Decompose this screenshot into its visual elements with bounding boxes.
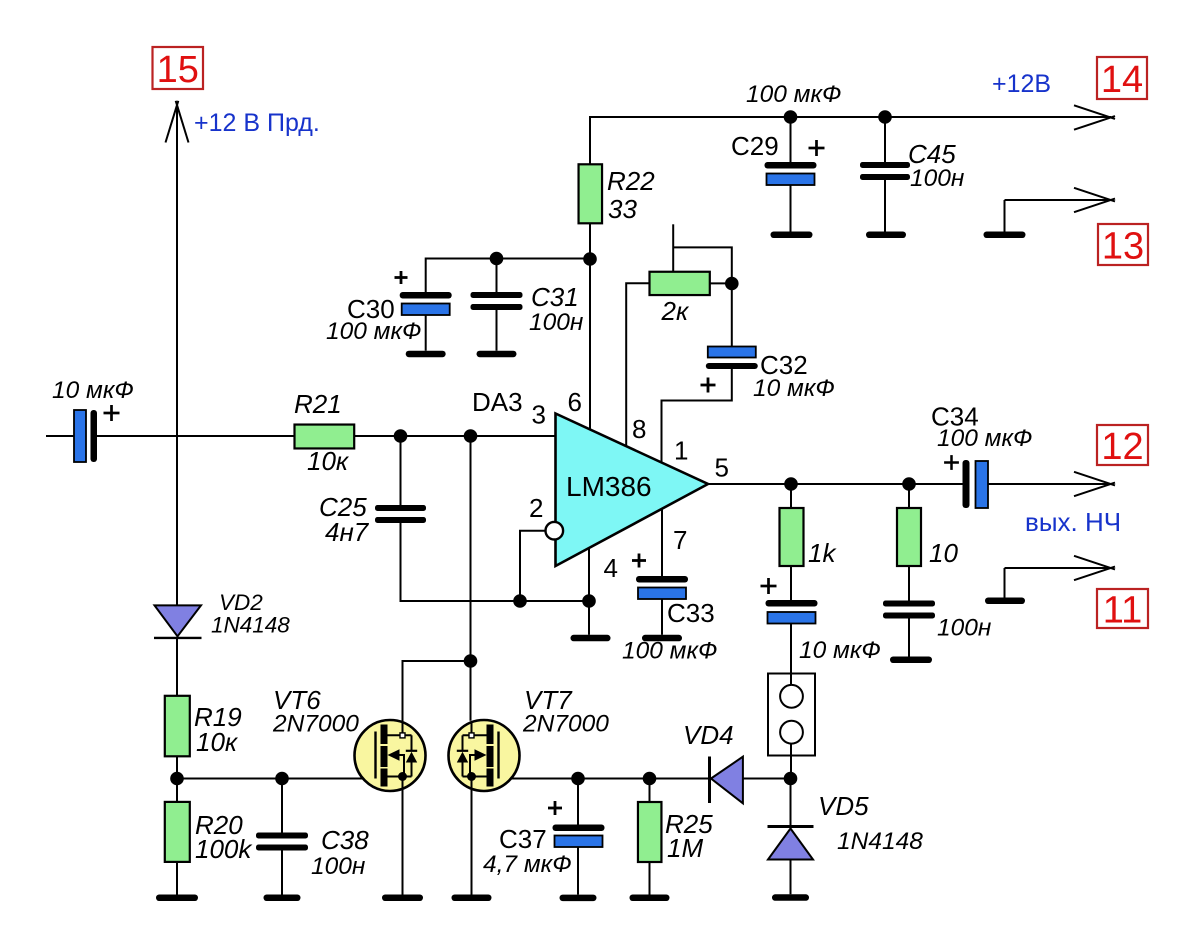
wire C45 top bbox=[884, 117, 886, 162]
resistor 1k bbox=[780, 508, 804, 566]
svg-text:14: 14 bbox=[1101, 59, 1143, 101]
svg-text:вых. НЧ: вых. НЧ bbox=[1025, 507, 1121, 537]
svg-text:3: 3 bbox=[532, 400, 546, 430]
capacitor C31 100н bbox=[471, 292, 523, 298]
diode VD2 1N4148 bbox=[155, 605, 202, 636]
wire C30-C31 rail bbox=[426, 259, 590, 293]
connector 11 red box bbox=[1097, 589, 1148, 628]
wire to arrow 13 bbox=[1005, 199, 1112, 201]
svg-text:4н7: 4н7 bbox=[325, 517, 370, 547]
wire 1k to cap bbox=[790, 566, 792, 600]
VT6 body diode branch bbox=[411, 735, 413, 751]
connector 13 red box bbox=[1098, 224, 1148, 265]
ground arrow 11 bbox=[985, 598, 1025, 605]
svg-text:2: 2 bbox=[529, 493, 543, 523]
wire pin4 to ground bbox=[588, 548, 590, 635]
wire input to R21 bbox=[97, 435, 295, 437]
svg-text:100 мкФ: 100 мкФ bbox=[746, 81, 842, 108]
svg-text:DA3: DA3 bbox=[472, 387, 523, 417]
node pin2 rail bbox=[513, 594, 527, 608]
ground C38 bbox=[264, 895, 301, 902]
connector 14 red box bbox=[1097, 57, 1147, 99]
wire arrow 13 to ground bbox=[1004, 200, 1006, 232]
capacitor C32 10 мкФ bbox=[708, 347, 756, 358]
wire input B down to VT7 drain bbox=[470, 436, 472, 721]
wire C33 bottom bbox=[661, 599, 663, 635]
VT7 source wire to ground bbox=[471, 777, 473, 895]
resistor R22 33 bbox=[579, 164, 603, 223]
VT6 drain lead bbox=[388, 734, 412, 736]
node R22/C30 rail bbox=[583, 252, 597, 266]
node output 10 bbox=[902, 477, 916, 491]
svg-text:4,7 мкФ: 4,7 мкФ bbox=[483, 851, 572, 878]
wire R21 to pin3 bbox=[354, 435, 555, 437]
node input B bbox=[464, 429, 478, 443]
ground C30 bbox=[406, 351, 446, 358]
ground arrow 13 bbox=[984, 232, 1026, 239]
capacitor 10 мкФ (below 1k) bbox=[766, 600, 818, 607]
wire 10 to cap bbox=[908, 566, 910, 602]
wire C29 bottom bbox=[790, 185, 792, 232]
wire VD2 to R19 bbox=[176, 639, 178, 696]
ground pin4 bbox=[571, 635, 611, 642]
svg-text:15: 15 bbox=[157, 49, 199, 91]
svg-text:11: 11 bbox=[1103, 590, 1142, 632]
node C38 tap bbox=[275, 772, 289, 786]
ground C33 bbox=[642, 635, 682, 642]
VT6 substrate arrow bbox=[388, 749, 400, 760]
svg-text:100 мкФ: 100 мкФ bbox=[326, 318, 422, 345]
wire to arrow 11 bbox=[1005, 567, 1112, 569]
wire connector to node bbox=[790, 744, 792, 779]
connector pin circle top bbox=[780, 685, 803, 708]
wire 2к right lead bbox=[710, 282, 732, 284]
wire C29 top bbox=[790, 117, 792, 162]
wire wiper jog bbox=[673, 247, 732, 283]
wire VD4 to node bbox=[743, 778, 791, 780]
arrow to 14 bbox=[1074, 105, 1115, 119]
svg-text:C33: C33 bbox=[667, 598, 715, 628]
capacitor C37 4,7 мкФ bbox=[553, 825, 605, 832]
svg-text:2N7000: 2N7000 bbox=[522, 711, 609, 738]
wire C31 bottom bbox=[496, 310, 498, 351]
node pin4 rail bbox=[582, 594, 596, 608]
VT7 drain lead bbox=[463, 734, 487, 736]
svg-text:33: 33 bbox=[608, 194, 637, 224]
node C31 rail bbox=[490, 252, 504, 266]
svg-text:100н: 100н bbox=[311, 853, 365, 880]
svg-text:2к: 2к bbox=[661, 296, 690, 326]
svg-text:100 мкФ: 100 мкФ bbox=[937, 425, 1033, 452]
resistor 10 bbox=[897, 508, 921, 566]
connector pin circle bottom bbox=[780, 721, 803, 744]
svg-text:10 мкФ: 10 мкФ bbox=[52, 377, 134, 404]
VT7 source lead bbox=[463, 776, 487, 778]
wire C25 upper bbox=[400, 436, 402, 505]
svg-text:R22: R22 bbox=[607, 166, 655, 196]
svg-text:100н: 100н bbox=[529, 309, 583, 336]
ground VD5 bbox=[772, 894, 809, 901]
ground C37 bbox=[560, 895, 597, 902]
svg-text:C29: C29 bbox=[731, 131, 779, 161]
arrow to 12 bbox=[1074, 472, 1115, 486]
VT6 channel segments bbox=[381, 725, 388, 745]
wire VD5 top bbox=[790, 779, 792, 827]
svg-text:10 мкФ: 10 мкФ bbox=[799, 637, 881, 664]
wire +12V supply vertical bbox=[176, 106, 178, 605]
node C29 top bbox=[784, 110, 798, 124]
node R19/R20 bbox=[170, 772, 184, 786]
capacitor input 10 мкФ (electrolytic, series) bbox=[74, 410, 86, 462]
svg-text:4: 4 bbox=[604, 553, 618, 583]
wire R22 top to +12V rail bbox=[590, 117, 1111, 164]
wire C34 to arrow 12 bbox=[988, 483, 1111, 485]
svg-text:13: 13 bbox=[1102, 226, 1144, 268]
wire C25 lower to rail bbox=[401, 523, 590, 601]
ground C31 bbox=[477, 351, 517, 358]
VT7 drain square bbox=[469, 733, 474, 738]
capacitor C34 100 мкФ (series) bbox=[963, 460, 970, 508]
capacitor C29 100 мкФ bbox=[765, 162, 817, 169]
svg-text:VD5: VD5 bbox=[818, 791, 869, 821]
VT7 drain wire bbox=[471, 721, 473, 735]
VT6 source lead bbox=[388, 776, 412, 778]
svg-text:1N4148: 1N4148 bbox=[211, 613, 290, 638]
ground R20 bbox=[156, 895, 198, 902]
diode VD4 bbox=[708, 757, 711, 804]
wire pin5 output bbox=[708, 483, 963, 485]
svg-text:7: 7 bbox=[673, 525, 687, 555]
wire R19 to node bbox=[176, 756, 178, 778]
svg-text:10: 10 bbox=[929, 538, 958, 568]
wire R25 bottom bbox=[649, 862, 651, 895]
transistor Q VT7 2N7000 bbox=[449, 720, 520, 791]
svg-text:+12В: +12В bbox=[992, 70, 1051, 98]
svg-text:5: 5 bbox=[715, 453, 729, 483]
wire gate rail left bbox=[177, 778, 376, 780]
wire input left bbox=[46, 435, 74, 437]
arrow up supply 15 bbox=[166, 101, 179, 143]
resistor R19 10к bbox=[165, 696, 190, 757]
svg-text:1M: 1M bbox=[667, 833, 703, 863]
capacitor C38 100н bbox=[256, 833, 308, 839]
ground VT7 bbox=[452, 895, 492, 902]
node output 1k bbox=[784, 477, 798, 491]
node C45 top bbox=[878, 110, 892, 124]
node VD5 top bbox=[784, 772, 798, 786]
ground R25 bbox=[630, 895, 670, 902]
node R25 tap bbox=[643, 772, 657, 786]
node 2к/C32 bbox=[725, 277, 739, 291]
VT7 channel segments bbox=[487, 725, 494, 745]
wire pin6 up bbox=[589, 259, 591, 430]
trimmer 2к body bbox=[650, 272, 710, 295]
capacitor 100н (below 10) bbox=[883, 601, 935, 607]
wire R20 to ground bbox=[176, 862, 178, 895]
pin 2 inversion bubble bbox=[546, 522, 564, 540]
VT6 gate bar bbox=[374, 732, 376, 779]
wire arrow 11 to ground bbox=[1004, 568, 1006, 598]
svg-text:8: 8 bbox=[632, 414, 646, 444]
wire C38 top bbox=[281, 779, 283, 833]
svg-text:R21: R21 bbox=[294, 389, 342, 419]
wire R22 bottom bbox=[589, 223, 591, 429]
svg-text:100 мкФ: 100 мкФ bbox=[622, 638, 718, 665]
svg-text:C38: C38 bbox=[321, 825, 369, 855]
resistor R20 100k bbox=[165, 802, 190, 862]
wire VD5 bottom bbox=[790, 860, 792, 895]
connector 12 red box bbox=[1097, 425, 1148, 465]
wire 100н to ground bbox=[908, 619, 910, 657]
VT6 drain square bbox=[400, 733, 405, 738]
capacitor C33 100 мкФ bbox=[636, 576, 688, 583]
ground VT6 bbox=[382, 895, 423, 902]
wire pin1 up to C32 bbox=[662, 368, 732, 462]
capacitor C25 4н7 bbox=[375, 505, 426, 511]
svg-text:6: 6 bbox=[568, 387, 582, 417]
resistor R21 bbox=[295, 425, 355, 449]
wire 1k top bbox=[790, 484, 792, 508]
node input A bbox=[394, 429, 408, 443]
VT6 drain wire bbox=[402, 721, 404, 735]
wire pin2 to rail bbox=[520, 531, 546, 601]
resistor R25 1M bbox=[638, 802, 662, 862]
svg-text:10 мкФ: 10 мкФ bbox=[753, 375, 835, 402]
svg-text:LM386: LM386 bbox=[566, 471, 652, 502]
arrow to 13 bbox=[1074, 188, 1115, 202]
VT6 source wire to ground bbox=[402, 777, 404, 895]
svg-text:100k: 100k bbox=[195, 834, 253, 864]
capacitor C45 100н bbox=[860, 162, 910, 168]
svg-text:VD4: VD4 bbox=[683, 720, 734, 750]
svg-text:C31: C31 bbox=[531, 282, 579, 312]
svg-text:+12 В Прд.: +12 В Прд. bbox=[194, 109, 320, 137]
ground 100н bbox=[890, 657, 932, 664]
VT7 body diode branch bbox=[462, 735, 464, 751]
wire C30 bottom bbox=[425, 315, 427, 351]
wire gate rail right bbox=[499, 778, 710, 780]
wire 10 top bbox=[908, 484, 910, 508]
connector jumper box bbox=[768, 674, 815, 756]
ground C29 bbox=[771, 232, 813, 239]
svg-text:VD2: VD2 bbox=[219, 590, 263, 615]
connector 15 red box bbox=[153, 47, 204, 89]
wire cap to connector bbox=[790, 624, 792, 685]
VT7 substrate arrow bbox=[475, 749, 487, 760]
node C37 tap bbox=[571, 772, 585, 786]
svg-text:12: 12 bbox=[1101, 426, 1143, 468]
svg-text:1N4148: 1N4148 bbox=[837, 828, 923, 855]
capacitor C30 100 мкФ bbox=[400, 292, 452, 299]
svg-text:100н: 100н bbox=[937, 615, 991, 642]
diode VD5 1N4148 bbox=[768, 825, 814, 828]
svg-text:2N7000: 2N7000 bbox=[272, 711, 359, 738]
svg-text:10к: 10к bbox=[307, 446, 350, 476]
svg-text:C37: C37 bbox=[499, 824, 547, 854]
op-amp U1 DA3 LM386 triangle bbox=[556, 414, 709, 567]
wire C37 bottom bbox=[577, 847, 579, 895]
svg-text:1: 1 bbox=[674, 436, 688, 466]
wire C32 top bbox=[731, 284, 733, 347]
node VT6 drain junction bbox=[464, 654, 478, 668]
wire R19 node to R20 bbox=[176, 779, 178, 802]
arrow to 11 bbox=[1074, 556, 1115, 570]
wire VT6 drain jog bbox=[403, 661, 471, 721]
wire pin7 down to C33 bbox=[661, 509, 663, 576]
trimmer 2к wiper bbox=[672, 224, 674, 271]
svg-text:100н: 100н bbox=[910, 165, 964, 192]
transistor Q VT6 2N7000 bbox=[355, 720, 426, 791]
wire pin8 up bbox=[626, 283, 649, 446]
wire C37 top bbox=[577, 779, 579, 825]
wire C45 bottom bbox=[884, 180, 886, 232]
wire C38 bottom bbox=[281, 851, 283, 895]
svg-text:10к: 10к bbox=[196, 727, 239, 757]
svg-text:1k: 1k bbox=[808, 538, 837, 568]
ground C45 bbox=[866, 232, 906, 239]
VT7 gate bar bbox=[497, 732, 499, 779]
wire R25 top bbox=[649, 779, 651, 803]
wire C31 top bbox=[496, 259, 498, 293]
